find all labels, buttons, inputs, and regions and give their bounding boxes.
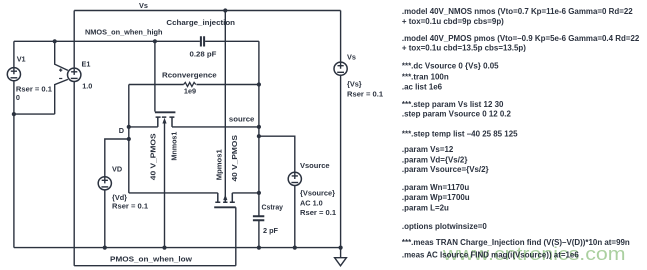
- svg-text:AC 1.0: AC 1.0: [300, 198, 323, 207]
- svg-text:40 V_PMOS: 40 V_PMOS: [230, 135, 239, 182]
- wire VD branch: [105, 139, 129, 177]
- svg-text:Rconvergence: Rconvergence: [162, 71, 217, 80]
- svg-text:Rser = 0.1: Rser = 0.1: [16, 85, 52, 94]
- svg-text:Ccharge_injection: Ccharge_injection: [166, 18, 235, 27]
- wire E1 output+ to Vs rail: [73, 11, 75, 69]
- svg-text:Rser = 0.1: Rser = 0.1: [300, 208, 336, 217]
- svg-text:+ tox=0.1u cbd=13.5p cbs=13.5p: + tox=0.1u cbd=13.5p cbs=13.5p): [402, 43, 526, 52]
- capacitor Ccharge_injection: [201, 36, 204, 46]
- wire Rconvergence right: [197, 84, 259, 86]
- wire E1 ctrl+ branch: [55, 41, 68, 70]
- svg-text:.param Vs=12: .param Vs=12: [402, 145, 454, 154]
- node dot source wire: [257, 125, 261, 129]
- wire Vsource bottom lead: [294, 186, 296, 248]
- wire Vs source bottom lead: [340, 75, 342, 257]
- netlist text panel: [402, 7, 640, 260]
- svg-text:.step param Vsource 0 12 0.2: .step param Vsource 0 12 0.2: [402, 109, 512, 118]
- wire Mnmos1 bulk: [164, 123, 166, 248]
- svg-text:Vs: Vs: [347, 53, 356, 62]
- svg-text:.options plotwinsize=0: .options plotwinsize=0: [402, 222, 487, 231]
- wire Mpmos1 right: [232, 192, 259, 194]
- svg-text:D: D: [119, 126, 124, 135]
- wire rail to Vs source: [340, 11, 342, 63]
- wire cap to source node: [205, 40, 259, 42]
- svg-text:{Vs}: {Vs}: [347, 80, 362, 89]
- node dot D lower: [127, 137, 131, 141]
- node dot Cstray ground: [257, 246, 261, 250]
- wire Vsource branch: [259, 136, 295, 172]
- svg-text:***.step temp list –40 25 85 1: ***.step temp list –40 25 85 125: [402, 129, 518, 138]
- svg-text:source: source: [229, 114, 255, 123]
- node dot Vs rail PMOS bulk: [223, 8, 227, 12]
- svg-text:.ac list 1e6: .ac list 1e6: [402, 82, 443, 91]
- svg-text:***.step param Vs list 12 30: ***.step param Vs list 12 30: [402, 100, 504, 109]
- svg-text:.param Wp=1700u: .param Wp=1700u: [402, 193, 470, 202]
- wire VD bottom lead: [104, 190, 106, 248]
- svg-text:Mpmos1: Mpmos1: [215, 149, 224, 180]
- node dot Vs ground: [339, 246, 343, 250]
- svg-text:.param Wn=1170u: .param Wn=1170u: [402, 183, 469, 192]
- node dot D upper: [127, 125, 131, 129]
- wire NMOS_on_when_high: [14, 40, 200, 42]
- wire Rconvergence left: [129, 84, 184, 86]
- svg-text:0.28 pF: 0.28 pF: [190, 49, 217, 58]
- voltage source VD: [98, 177, 111, 190]
- transistor Mnmos1: [155, 112, 176, 127]
- svg-text:+ tox=0.1u cbd=9p cbs=9p): + tox=0.1u cbd=9p cbs=9p): [402, 17, 504, 26]
- voltage source Vs: [334, 62, 347, 75]
- wire E1 ctrl- branch: [55, 79, 68, 114]
- svg-text:***.tran 100n: ***.tran 100n: [402, 72, 449, 81]
- svg-text:E1: E1: [82, 60, 91, 69]
- wire Vs top rail: [74, 10, 340, 12]
- wire Mnmos1 gate lead: [154, 41, 156, 111]
- node dot VD ground: [103, 246, 107, 250]
- svg-text:1e9: 1e9: [184, 87, 196, 96]
- svg-text:VD: VD: [112, 165, 122, 174]
- svg-text:Rser = 0.1: Rser = 0.1: [347, 90, 383, 99]
- vcvs E1: [59, 68, 81, 81]
- svg-text:***.dc Vsource 0 {Vs} 0.05: ***.dc Vsource 0 {Vs} 0.05: [402, 61, 499, 70]
- svg-text:.param Vd={Vs/2}: .param Vd={Vs/2}: [402, 155, 468, 164]
- voltage source Vsource: [288, 172, 301, 185]
- wire drain vertical: [128, 85, 130, 193]
- svg-text:.param L=2u: .param L=2u: [402, 203, 449, 212]
- svg-text:40 V_PMOS: 40 V_PMOS: [149, 133, 158, 180]
- svg-text:.meas AC Isource FIND mag(i(Vs: .meas AC Isource FIND mag(i(Vsource)) at…: [402, 250, 579, 259]
- svg-text:Vsource: Vsource: [300, 161, 330, 170]
- svg-text:0: 0: [16, 93, 20, 102]
- node dot V1 bottom tee: [12, 112, 16, 116]
- node dot Mpmos right: [257, 191, 261, 195]
- node dot Vsource ground: [293, 246, 297, 250]
- transistor Mpmos1: [214, 193, 236, 207]
- svg-text:.model 40V_PMOS pmos (Vto=–0.9: .model 40V_PMOS pmos (Vto=–0.9 Kp=5e-6 G…: [402, 34, 640, 43]
- wire V1 to E1 ctrl-: [14, 113, 55, 115]
- wire ground rail: [14, 247, 341, 249]
- wire Mpmos1 left: [129, 192, 218, 194]
- wire PMOS gate lead: [235, 207, 237, 265]
- wire V1 bottom lead: [13, 81, 15, 248]
- svg-text:PMOS_on_when_low: PMOS_on_when_low: [110, 255, 192, 264]
- svg-text:NMOS_on_when_high: NMOS_on_when_high: [85, 27, 163, 36]
- svg-text:V1: V1: [17, 55, 26, 64]
- ground: [335, 258, 347, 266]
- voltage source V1: [7, 68, 20, 81]
- node dot NMOS gate tee: [153, 39, 157, 43]
- node dot Vsource branch: [257, 134, 261, 138]
- wire Cstray bottom lead: [258, 220, 260, 247]
- svg-text:Cstray: Cstray: [262, 203, 284, 212]
- svg-text:{Vsource}: {Vsource}: [300, 188, 335, 197]
- capacitor Cstray: [253, 216, 264, 220]
- svg-text:1.0: 1.0: [82, 82, 92, 91]
- svg-text:2 pF: 2 pF: [263, 226, 279, 235]
- svg-text:.param Vsource={Vs/2}: .param Vsource={Vs/2}: [402, 165, 490, 174]
- resistor Rconvergence: [184, 82, 196, 86]
- wire V1 top lead: [13, 41, 15, 67]
- svg-text:Vs: Vs: [139, 1, 148, 10]
- node dot E1 ctrl tee: [53, 39, 57, 43]
- wire node source: [172, 126, 259, 128]
- wire node D: [129, 126, 158, 128]
- wire E1 output- down: [73, 82, 75, 266]
- wire source vertical: [258, 41, 260, 216]
- svg-text:***.meas TRAN Charge_Injection: ***.meas TRAN Charge_Injection find (V(S…: [402, 238, 630, 247]
- svg-text:.model 40V_NMOS nmos (Vto=0.7: .model 40V_NMOS nmos (Vto=0.7 Kp=11e-6 G…: [402, 7, 633, 16]
- wire Mpmos1 bulk: [224, 11, 226, 201]
- svg-text:Rser = 0.1: Rser = 0.1: [112, 201, 148, 210]
- svg-text:Mnmos1: Mnmos1: [169, 132, 178, 161]
- node dot Rconvergence right: [257, 82, 261, 86]
- wire PMOS_on_when_low: [74, 265, 236, 267]
- node dot bulk ground: [162, 246, 166, 250]
